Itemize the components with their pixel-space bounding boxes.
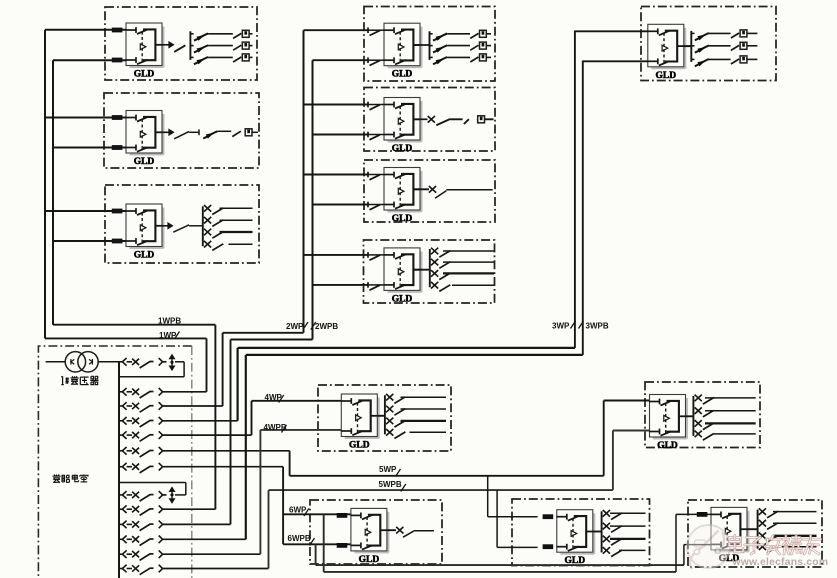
svg-text:GLD: GLD [359, 555, 380, 565]
svg-text:3WP: 3WP [552, 321, 570, 330]
svg-text:2WP: 2WP [286, 322, 304, 331]
svg-text:GLD: GLD [392, 214, 413, 224]
svg-text:GLD: GLD [392, 294, 413, 304]
svg-text:GLD: GLD [349, 441, 370, 451]
svg-text:4WPB: 4WPB [264, 423, 287, 432]
svg-text:1WP: 1WP [159, 331, 177, 340]
svg-text:5WP: 5WP [379, 465, 397, 474]
svg-text:6WPB: 6WPB [288, 534, 311, 543]
svg-text:GLD: GLD [392, 70, 413, 80]
svg-text:6WP: 6WP [289, 505, 307, 514]
svg-text:GLD: GLD [134, 251, 155, 261]
svg-text:2WPB: 2WPB [315, 322, 338, 331]
svg-text:GLD: GLD [565, 556, 586, 566]
svg-text:4WP: 4WP [265, 393, 283, 402]
svg-text:3WPB: 3WPB [586, 321, 609, 330]
svg-text:GLD: GLD [134, 157, 155, 167]
svg-text:GLD: GLD [657, 441, 678, 451]
svg-text:GLD: GLD [656, 71, 677, 81]
svg-text:5WPB: 5WPB [379, 480, 402, 489]
svg-text:GLD: GLD [392, 144, 413, 154]
svg-text:www.elecfans.com: www.elecfans.com [732, 557, 829, 568]
svg-text:GLD: GLD [134, 70, 155, 80]
svg-text:1WPB: 1WPB [158, 316, 181, 325]
